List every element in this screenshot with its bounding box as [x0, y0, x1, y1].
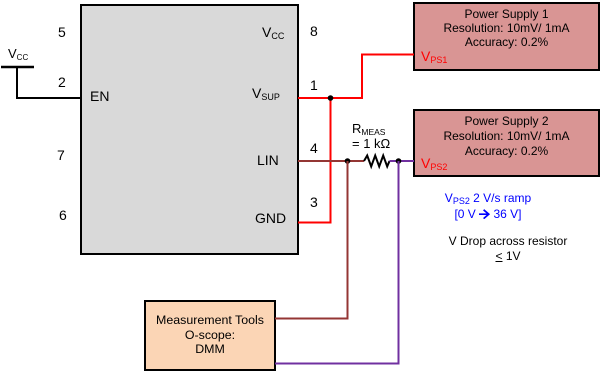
pin 1 — [310, 78, 318, 92]
wire GND pin3 — [298, 222, 332, 224]
pin 7 — [57, 148, 65, 162]
annotation VPS2 ramp (blue) — [388, 191, 588, 222]
pin 6 — [59, 208, 67, 222]
pin label VCC — [262, 25, 284, 41]
wire VSUP pin1 to junction — [298, 97, 362, 99]
power supply PS2 box — [413, 109, 600, 177]
power supply PS1 box — [413, 2, 600, 71]
wire LIN pin4 to resistor (dark red) — [298, 160, 364, 162]
wire VCC stem to EN — [17, 67, 81, 98]
junction J1 (VSUP node) — [328, 95, 334, 101]
pin label GND — [255, 211, 286, 225]
resistor value label RMEAS = 1 kOhm — [352, 122, 390, 151]
wire junction down to GND row — [330, 98, 332, 223]
pin 5 — [58, 25, 66, 39]
junction J2 (LIN side of resistor) — [345, 158, 351, 164]
pin 8 — [310, 24, 318, 38]
annotation V drop across resistor — [408, 234, 601, 264]
junction J3 (PS2 side of resistor) — [396, 158, 402, 164]
net label VPS1 — [421, 49, 447, 65]
VCC net label (top-left) — [8, 47, 28, 62]
IC U1 (DUT) — [80, 4, 299, 255]
pin label VSUP — [252, 86, 280, 102]
wire resistor to PS2 (purple) — [390, 160, 415, 162]
wire J3 down to measurement tools (purple) — [275, 161, 399, 364]
VCC supply symbol (rail bar + stem) — [1, 66, 34, 69]
pin 3 — [310, 195, 318, 209]
pin label EN — [90, 89, 109, 103]
wire J2 down to measurement tools (dark red) — [275, 161, 348, 319]
resistor RMEAS zigzag — [364, 156, 390, 167]
pin label LIN — [257, 153, 279, 167]
wire VSUP up to PS1 — [362, 55, 414, 100]
pin 2 — [58, 75, 66, 89]
measurement tools box — [144, 300, 276, 371]
net label VPS2 — [421, 156, 447, 172]
pin 4 — [310, 141, 318, 155]
